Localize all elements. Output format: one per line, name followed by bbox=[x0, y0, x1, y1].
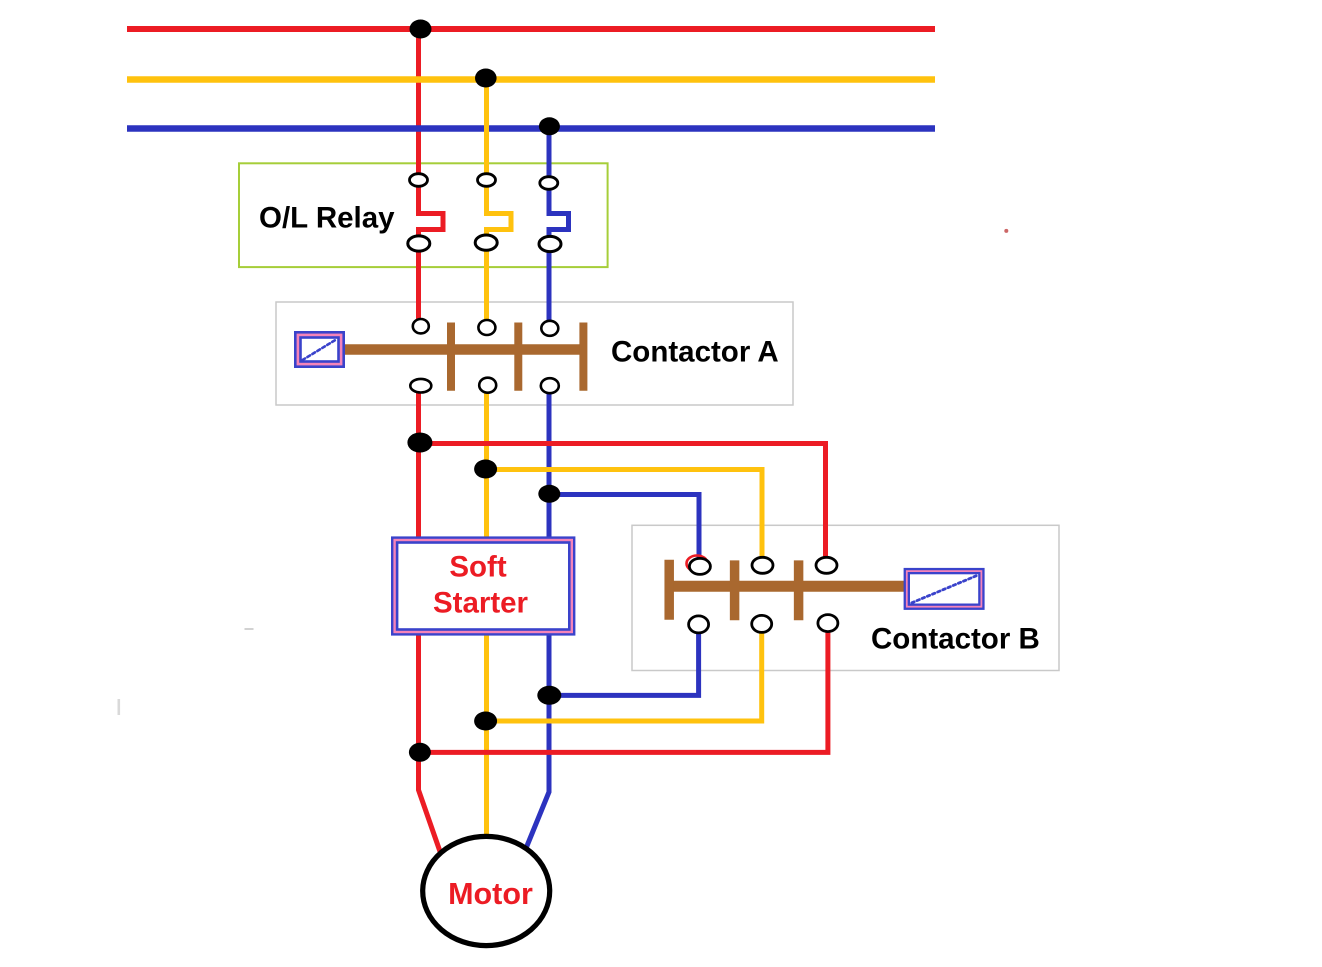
contactor B terminal bottom 2 bbox=[752, 615, 772, 632]
svg-text:Motor: Motor bbox=[448, 877, 533, 911]
svg-text:Contactor B: Contactor B bbox=[871, 623, 1040, 656]
svg-text:O/L Relay: O/L Relay bbox=[259, 202, 395, 235]
junction dot red branch bbox=[407, 433, 432, 453]
contactor B terminal top 1 bbox=[689, 558, 710, 574]
contactor A terminal bottom R bbox=[410, 379, 431, 393]
stray red speck artifact bbox=[1004, 229, 1008, 233]
contactor A terminal bottom B bbox=[541, 378, 559, 393]
svg-text:Starter: Starter bbox=[433, 587, 529, 620]
contactor A terminal top R bbox=[413, 319, 429, 333]
contactor A contact bar 1 bbox=[447, 323, 455, 391]
L3 bus (blue) bbox=[127, 125, 935, 132]
wire L1 red lower drop to motor bbox=[419, 380, 441, 852]
contactor B coil symbol bbox=[904, 568, 985, 610]
contactor A terminal top Y bbox=[478, 320, 495, 335]
junction dot L2 bus tap bbox=[475, 69, 497, 88]
red paint artifact on contactor B top-left terminal bbox=[687, 556, 708, 572]
junction dot blue branch bbox=[538, 485, 560, 503]
contactor A coil symbol bbox=[294, 331, 345, 368]
junction dot blue return bbox=[537, 686, 561, 705]
wire yellow branch to contactor B top bbox=[487, 470, 763, 567]
wire red branch to contactor B top bbox=[419, 444, 826, 567]
O/L Relay enclosure box bbox=[239, 163, 608, 267]
O/L relay terminal top Y bbox=[478, 174, 496, 187]
junction dot L3 bus tap bbox=[539, 117, 560, 135]
wire yellow return from contactor B bottom bbox=[487, 624, 762, 721]
wire L1 red drop with overload heater jog bbox=[419, 29, 444, 331]
O/L relay terminal bottom B bbox=[539, 236, 561, 251]
O/L relay terminal top R bbox=[410, 174, 428, 187]
wire L2 yellow lower drop to motor bbox=[484, 380, 489, 838]
contactor A terminal bottom Y bbox=[479, 378, 496, 393]
O/L relay terminal bottom Y bbox=[475, 235, 497, 250]
junction dot red return bbox=[409, 743, 431, 762]
contactor B terminal top 3 bbox=[816, 557, 837, 573]
motor circle bbox=[423, 836, 550, 945]
contactor A contact bar 2 bbox=[514, 323, 522, 391]
contactor A crossbar (brown) bbox=[344, 344, 587, 355]
Contactor A enclosure box bbox=[276, 302, 793, 405]
O/L relay terminal bottom R bbox=[408, 236, 430, 251]
Soft Starter box bbox=[391, 536, 575, 635]
wire blue branch to contactor B top bbox=[549, 495, 699, 568]
contactor A terminal top B bbox=[541, 321, 558, 336]
junction dot yellow branch bbox=[474, 460, 497, 479]
contactor B contact bar 1 bbox=[664, 560, 674, 620]
wire L3 blue drop with overload heater jog bbox=[549, 129, 569, 334]
contactor B crossbar (brown) bbox=[665, 581, 905, 592]
wire L3 blue lower drop to motor bbox=[526, 380, 550, 850]
contactor B contact bar 3 bbox=[794, 560, 804, 620]
Contactor B enclosure box bbox=[632, 525, 1059, 670]
contactor A contact bar 3 bbox=[579, 323, 587, 391]
L2 bus (yellow) bbox=[127, 76, 935, 83]
wire blue return from contactor B bottom bbox=[549, 624, 699, 695]
O/L relay terminal top B bbox=[540, 177, 558, 190]
contactor B terminal bottom 1 bbox=[689, 616, 709, 633]
junction dot yellow return bbox=[474, 712, 497, 731]
contactor B contact bar 2 bbox=[730, 560, 740, 620]
L1 bus (red) bbox=[127, 26, 935, 32]
wire red return from contactor B bottom bbox=[419, 623, 828, 752]
faint gray artifact dashes bbox=[245, 628, 254, 630]
svg-text:Contactor A: Contactor A bbox=[611, 335, 779, 368]
svg-text:Soft: Soft bbox=[449, 551, 507, 584]
contactor B terminal bottom 3 bbox=[818, 615, 838, 632]
wire L2 yellow drop with overload heater jog bbox=[487, 80, 512, 333]
contactor B terminal top 2 bbox=[752, 557, 773, 573]
junction dot L1 bus tap bbox=[410, 20, 432, 39]
faint gray artifact tick bbox=[118, 699, 121, 715]
